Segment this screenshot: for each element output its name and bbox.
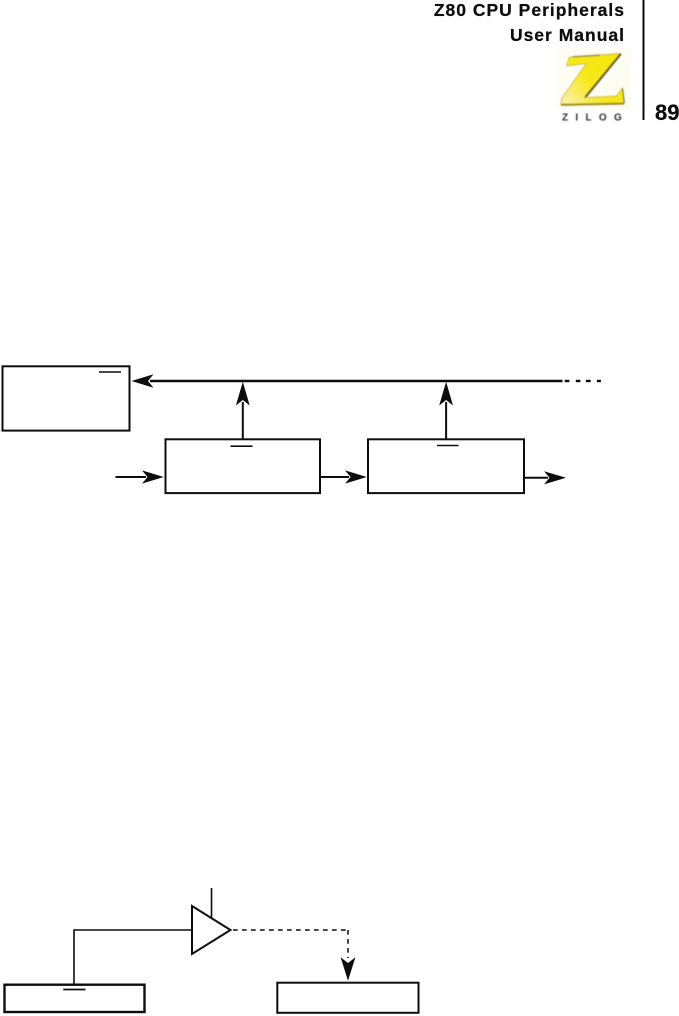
box 2 (second peripheral)	[368, 439, 524, 493]
overline in box A	[99, 371, 121, 373]
Z top edge shadow smear	[573, 55, 601, 57]
Z diagonal shadow edge	[585, 54, 621, 98]
header vertical rule	[643, 0, 645, 120]
Z bottom bar top soft edge	[586, 96, 616, 98]
Zilog Z glyph	[561, 53, 625, 104]
overline in box 2	[437, 445, 459, 447]
buffer triangle	[192, 906, 231, 954]
continuation dashes	[565, 380, 601, 382]
box A (top-left, CPU)	[3, 366, 130, 430]
page number 89	[655, 100, 679, 126]
overline in bottom-left box	[63, 989, 85, 991]
up arrow from box 2	[445, 402, 447, 439]
clock input line into triangle top	[211, 888, 213, 918]
long daisy-chain line	[150, 380, 563, 382]
dashed wire from triangle output	[233, 930, 348, 958]
bottom-right box	[277, 983, 418, 1013]
down arrowhead into right box	[341, 957, 356, 981]
arrow box1 to box2	[321, 476, 350, 478]
input arrow into box 1	[116, 476, 147, 478]
Z bottom shadow edge	[561, 104, 625, 105]
bottom-left box	[5, 985, 145, 1012]
logo background plate	[557, 49, 631, 109]
left arrowhead into box A	[132, 374, 154, 387]
up arrow from box 1	[242, 402, 244, 439]
Z right serif dark edge	[623, 89, 625, 103]
overline in box 1	[231, 445, 253, 447]
wire from left box up to triangle input	[74, 930, 191, 984]
header title: Z80 CPU Peripherals / User Manual	[434, 0, 625, 48]
box 1 (first peripheral)	[166, 439, 321, 493]
svg-text:ZILOG: ZILOG	[562, 113, 629, 124]
output arrow from box 2	[525, 477, 549, 479]
